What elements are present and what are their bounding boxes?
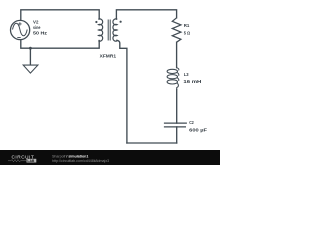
ground xyxy=(23,65,38,73)
svg-text:http://circuitlab.com/cd448k8d: http://circuitlab.com/cd448k8dmajx3 xyxy=(52,159,109,163)
svg-text:16 mH: 16 mH xyxy=(183,79,202,84)
label C2 value xyxy=(189,120,207,132)
wire C2 to bottom rail xyxy=(176,127,178,143)
wire bottom primary rail xyxy=(21,40,99,48)
transformer secondary phase dot xyxy=(120,21,122,23)
wire bottom rail xyxy=(127,142,177,144)
voltage source V2 xyxy=(11,20,30,39)
transformer secondary winding xyxy=(113,18,117,41)
label V2 value xyxy=(33,20,48,36)
svg-text:XFMR1: XFMR1 xyxy=(100,53,117,58)
transformer XFMR1 primary winding xyxy=(98,18,102,41)
svg-text:600 µF: 600 µF xyxy=(189,127,207,132)
watermark logo squiggle xyxy=(8,160,26,162)
watermark bar xyxy=(0,150,220,165)
label L3 value xyxy=(183,72,202,84)
svg-text:R1: R1 xyxy=(184,23,190,28)
wire secondary left side xyxy=(117,40,127,143)
svg-text:50 Hz: 50 Hz xyxy=(33,31,48,36)
svg-text:sine: sine xyxy=(33,25,41,30)
wire L3 to C2 xyxy=(176,90,178,124)
svg-text:V2: V2 xyxy=(33,20,39,25)
capacitor C2 xyxy=(164,123,187,127)
svg-text:LAB: LAB xyxy=(27,159,35,163)
junction dot xyxy=(29,47,32,50)
wire top primary rail xyxy=(21,10,99,21)
watermark logo LAB xyxy=(27,159,37,163)
wire ground stub xyxy=(29,48,31,65)
resistor R1 xyxy=(172,18,181,42)
transformer core xyxy=(108,20,110,41)
svg-text:C2: C2 xyxy=(189,120,194,125)
svg-text:5 Ω: 5 Ω xyxy=(184,31,191,36)
label R1 value xyxy=(184,23,191,35)
wire R1 to L3 xyxy=(176,42,178,67)
svg-text:L3: L3 xyxy=(184,72,189,77)
wire secondary top rail xyxy=(116,10,176,19)
transformer primary phase dot xyxy=(95,21,97,23)
inductor L3 xyxy=(167,68,179,90)
